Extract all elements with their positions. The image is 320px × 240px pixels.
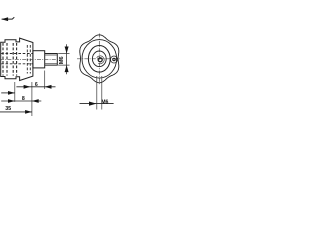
svg-text:M6: M6: [101, 99, 108, 105]
svg-text:M6: M6: [59, 56, 65, 64]
svg-text:6: 6: [35, 82, 38, 88]
svg-text:35: 35: [5, 106, 11, 112]
svg-text:8: 8: [22, 96, 25, 102]
